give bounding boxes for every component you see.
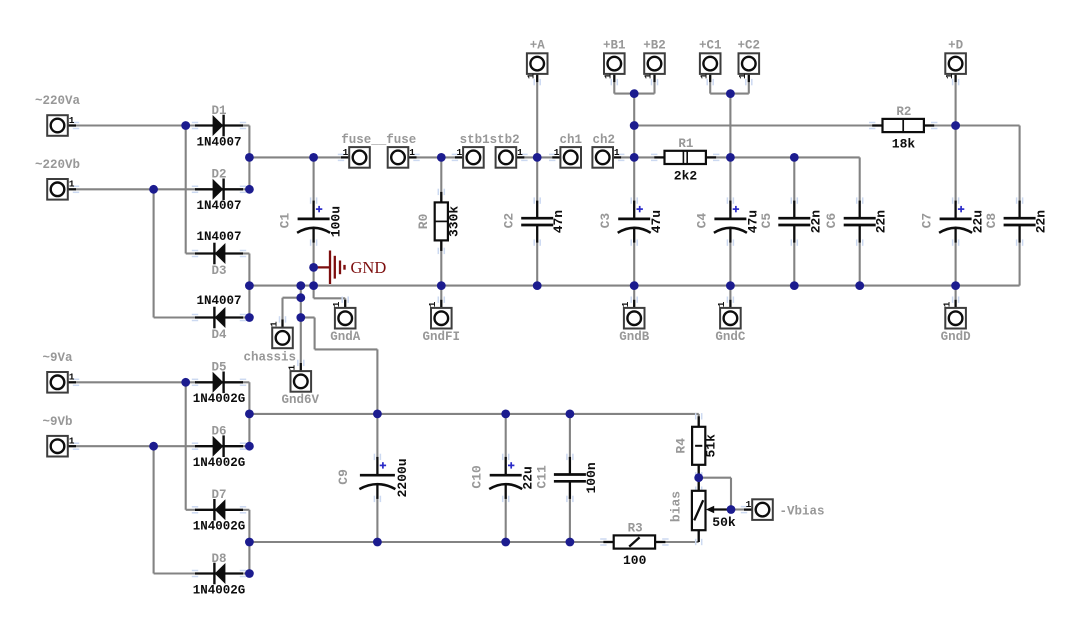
junction node R2 branch <box>630 121 639 130</box>
junction node +B/C3 <box>630 153 639 162</box>
svg-text:+B1: +B1 <box>603 39 626 53</box>
junction node +B join <box>630 89 639 98</box>
capacitor C4 47u <box>694 197 760 245</box>
connector ~220Vb <box>35 158 80 200</box>
junction node R0 bottom <box>437 281 446 290</box>
diode D1 1N4007 <box>192 104 246 149</box>
wire R1 out to C5 C6 <box>716 157 860 202</box>
svg-text:~220Va: ~220Va <box>35 94 81 108</box>
wire C8 branch <box>956 126 1020 286</box>
svg-text:D1: D1 <box>211 104 226 118</box>
svg-text:+D: +D <box>948 39 964 53</box>
svg-text:1: 1 <box>941 301 952 307</box>
wire R0 column / GndFI <box>440 157 442 299</box>
svg-text:1: 1 <box>614 147 620 158</box>
wire R4 to wiper loop <box>699 478 731 510</box>
svg-text:1N4002G: 1N4002G <box>193 392 246 406</box>
svg-text:fuse__fuse: fuse__fuse <box>341 133 416 147</box>
svg-text:+C2: +C2 <box>738 39 761 53</box>
svg-text:1: 1 <box>525 73 536 79</box>
connector ~220Va <box>35 94 81 136</box>
resistor R0 330k <box>416 189 461 254</box>
svg-text:1N4007: 1N4007 <box>196 294 241 308</box>
junction node +C/C4 <box>726 153 735 162</box>
svg-text:GndA: GndA <box>330 330 361 344</box>
junction node C1 bottom <box>309 281 318 290</box>
svg-text:GND: GND <box>351 258 387 277</box>
wire R2 feed <box>634 124 872 126</box>
junction node D8 anode <box>245 569 254 578</box>
wire +B column / C3 <box>633 94 635 300</box>
wire vertical feed D5 node to D7 cathode <box>186 382 196 510</box>
junction node C9 bottom <box>373 538 382 547</box>
wire C5 column <box>793 157 795 285</box>
svg-text:~9Va: ~9Va <box>42 351 73 365</box>
connector ch1 <box>549 133 582 168</box>
connector stb1 <box>452 147 484 168</box>
junction node R0 top <box>437 153 446 162</box>
wire D2 cathode <box>242 188 249 190</box>
wire R4 column <box>698 414 700 478</box>
junction node ~9Va/D5 <box>181 378 190 387</box>
svg-text:D5: D5 <box>211 361 226 375</box>
capacitor C7 22u <box>920 197 986 245</box>
svg-text:-Vbias: -Vbias <box>780 504 825 518</box>
svg-text:1: 1 <box>456 147 462 158</box>
wire +C1 +C2 join <box>710 82 749 94</box>
wire 9V positive rail <box>249 413 698 415</box>
svg-text:GndB: GndB <box>619 330 650 344</box>
wire C9 column <box>376 414 378 542</box>
resistor R2 18k <box>869 105 937 151</box>
svg-text:chassis: chassis <box>244 351 297 365</box>
svg-text:2200u: 2200u <box>395 458 410 497</box>
capacitor C9 2200u <box>336 454 410 502</box>
wire +A column <box>536 82 538 157</box>
junction node +A/C2 <box>533 153 542 162</box>
wire D5 D6 cathodes <box>242 382 249 446</box>
wire stb2 to ch1 <box>524 156 552 158</box>
connector +B1 <box>603 39 626 86</box>
svg-text:D2: D2 <box>211 168 226 182</box>
junction node C11 top <box>566 410 575 419</box>
svg-text:~220Vb: ~220Vb <box>35 158 80 172</box>
svg-text:C8: C8 <box>984 213 999 229</box>
svg-text:C5: C5 <box>759 213 774 229</box>
junction node Gnd6V branch <box>296 313 305 322</box>
svg-text:D3: D3 <box>211 264 226 278</box>
wire 9V negative rail <box>249 541 698 543</box>
capacitor C6 22n <box>824 197 889 245</box>
svg-text:1: 1 <box>716 301 727 307</box>
connector stb2 <box>460 133 528 168</box>
svg-text:Gnd6V: Gnd6V <box>282 393 320 407</box>
wire R2 out to +D node <box>934 124 956 126</box>
junction node D2 cathode <box>245 185 254 194</box>
svg-text:51k: 51k <box>704 434 719 458</box>
diode D5 1N4002G <box>192 361 246 406</box>
svg-text:D6: D6 <box>211 425 226 439</box>
wire C2 column <box>536 157 538 285</box>
wire +B1 +B2 join <box>614 82 654 94</box>
svg-text:D7: D7 <box>211 488 226 502</box>
wire C11 column <box>569 414 571 542</box>
svg-text:C9: C9 <box>336 469 351 485</box>
svg-text:1: 1 <box>603 73 614 79</box>
resistor R1 2k2 <box>651 137 719 183</box>
svg-text:C1: C1 <box>278 213 293 229</box>
svg-text:1: 1 <box>69 372 75 383</box>
junction node D6 cathode <box>245 442 254 451</box>
svg-text:1N4002G: 1N4002G <box>193 520 246 534</box>
wire fuse to stb1 <box>417 156 455 158</box>
svg-text:1: 1 <box>409 147 415 158</box>
junction node C2 bottom <box>533 281 542 290</box>
svg-text:D4: D4 <box>211 328 227 342</box>
wire ~220Vb to D2 anode <box>76 188 196 190</box>
wire ground hub column to Gnd6V <box>300 286 302 363</box>
resistor R3 100 <box>600 522 668 568</box>
svg-text:C4: C4 <box>694 213 709 229</box>
svg-text:1: 1 <box>427 301 438 307</box>
capacitor C5 22n <box>759 197 824 245</box>
wire ground to 9V rectifier rail <box>301 318 378 414</box>
junction node ~220Vb/D2 <box>149 185 158 194</box>
svg-text:100u: 100u <box>329 206 344 237</box>
svg-text:1: 1 <box>554 147 560 158</box>
svg-text:R3: R3 <box>628 522 643 536</box>
wire vertical feed D2 node to D4 cathode <box>154 189 196 317</box>
connector +A <box>525 39 547 86</box>
connector GndFI <box>423 297 461 345</box>
ground GND power symbol <box>314 251 387 285</box>
connector +B2 <box>643 39 666 86</box>
capacitor C3 47u <box>598 197 664 245</box>
svg-text:ch2: ch2 <box>592 133 615 147</box>
wire ch2 to R1 <box>621 156 654 158</box>
svg-text:C6: C6 <box>824 213 839 229</box>
svg-text:GndD: GndD <box>941 330 972 344</box>
svg-text:stb1stb2: stb1stb2 <box>460 133 520 147</box>
connector -Vbias <box>741 499 825 520</box>
connector ch2 <box>592 133 624 168</box>
connector chassis <box>244 316 297 364</box>
connector +C2 <box>737 39 760 86</box>
svg-text:1: 1 <box>268 321 279 327</box>
svg-text:330k: 330k <box>446 206 461 237</box>
svg-text:GndFI: GndFI <box>423 330 461 344</box>
svg-text:1: 1 <box>69 436 75 447</box>
junction node R4/pot <box>694 473 703 482</box>
wire D4 anode to gnd bus <box>243 286 249 318</box>
junction node C3 bottom <box>630 281 639 290</box>
wire chassis branch <box>283 298 301 320</box>
svg-text:1: 1 <box>287 364 298 370</box>
svg-text:R1: R1 <box>678 137 693 151</box>
resistor R4 51k <box>674 413 719 478</box>
svg-text:+B2: +B2 <box>643 39 666 53</box>
connector GndA <box>330 297 361 345</box>
junction node C7 bottom <box>951 281 960 290</box>
connector GndD <box>941 297 972 345</box>
connector fuse (right) <box>341 133 420 168</box>
connector Gnd6V <box>282 360 320 407</box>
svg-text:1N4007: 1N4007 <box>196 199 241 213</box>
wire ~220Va to D1 anode <box>76 124 196 126</box>
svg-text:1: 1 <box>620 301 631 307</box>
svg-text:1N4002G: 1N4002G <box>193 456 246 470</box>
capacitor C2 47n <box>502 197 567 245</box>
junction node ~220Va/D1 <box>181 121 190 130</box>
diode D2 1N4007 <box>192 168 246 213</box>
svg-text:GndC: GndC <box>715 330 746 344</box>
svg-text:22n: 22n <box>1034 210 1049 234</box>
wire D7 D8 anodes <box>243 510 249 574</box>
junction node C4 bottom <box>726 281 735 290</box>
junction node D4 anode <box>245 313 254 322</box>
svg-text:50k: 50k <box>712 515 736 530</box>
svg-text:100n: 100n <box>584 462 599 493</box>
junction node C6 bottom <box>855 281 864 290</box>
junction node C5 top <box>790 153 799 162</box>
capacitor C10 22u <box>470 454 536 502</box>
junction node chassis branch <box>296 293 305 302</box>
junction node gnd bus left <box>245 281 254 290</box>
svg-text:C10: C10 <box>470 465 485 489</box>
junction node C10 bottom <box>501 538 510 547</box>
connector GndC <box>715 297 746 345</box>
wire bias pot column <box>698 478 700 542</box>
wire wiper node to -Vbias <box>731 508 744 510</box>
svg-text:R0: R0 <box>416 213 431 229</box>
diode D3 1N4007 <box>192 230 246 278</box>
wire vertical feed D1 node to D3 cathode <box>186 126 196 254</box>
svg-text:47n: 47n <box>551 210 566 234</box>
junction node C10 top <box>501 410 510 419</box>
svg-text:C2: C2 <box>502 213 517 229</box>
potentiometer bias 50k <box>668 478 736 546</box>
connector GndB <box>619 297 650 345</box>
svg-text:C11: C11 <box>534 465 549 489</box>
svg-text:1: 1 <box>69 179 75 190</box>
svg-text:18k: 18k <box>892 137 916 152</box>
svg-text:1N4007: 1N4007 <box>196 230 241 244</box>
svg-text:1N4007: 1N4007 <box>196 135 241 149</box>
junction node +C join <box>726 89 735 98</box>
svg-text:C7: C7 <box>920 213 935 229</box>
wire C1 column <box>313 157 315 285</box>
junction node rectified bus <box>245 153 254 162</box>
svg-text:1N4002G: 1N4002G <box>193 583 246 597</box>
junction node wiper/-Vbias <box>727 505 736 514</box>
svg-text:47u: 47u <box>649 210 664 233</box>
wire D3 anode to gnd bus <box>243 254 249 286</box>
wire gnd bus <box>249 285 1019 287</box>
wire +C column / C4 <box>729 94 731 300</box>
svg-text:R4: R4 <box>674 438 689 454</box>
svg-text:1: 1 <box>944 73 955 79</box>
svg-text:bias: bias <box>668 491 683 522</box>
diode D8 1N4002G <box>192 552 246 597</box>
wire ~9Vb to D6 anode <box>76 445 196 447</box>
svg-text:1: 1 <box>746 499 752 510</box>
diode D4 1N4007 <box>192 294 246 342</box>
svg-text:~9Vb: ~9Vb <box>42 415 72 429</box>
junction node C9 top <box>373 410 382 419</box>
wire GndA branch <box>314 286 346 300</box>
wire D1 cathode to bus <box>242 126 249 190</box>
svg-text:2k2: 2k2 <box>674 168 698 183</box>
wire vertical feed D6 node to D8 cathode <box>154 446 196 573</box>
connector fuse (left) <box>338 147 370 168</box>
svg-text:ch1: ch1 <box>559 133 582 147</box>
junction node C5 bottom <box>790 281 799 290</box>
svg-text:R2: R2 <box>896 105 911 119</box>
wire C6 bottom <box>859 241 861 286</box>
svg-text:100: 100 <box>623 553 647 568</box>
svg-text:22n: 22n <box>874 210 889 234</box>
capacitor C8 22n <box>984 197 1049 245</box>
junction node GND symbol <box>309 263 318 272</box>
svg-text:1: 1 <box>517 147 523 158</box>
junction node 9V+ rail <box>245 410 254 419</box>
svg-text:1: 1 <box>69 115 75 126</box>
junction node ~9Vb/D6 <box>149 442 158 451</box>
junction node gnd hub <box>296 281 305 290</box>
svg-text:1: 1 <box>643 73 654 79</box>
svg-text:1: 1 <box>343 147 349 158</box>
connector +C1 <box>698 39 721 86</box>
svg-text:+A: +A <box>530 39 546 53</box>
capacitor C11 100n <box>534 454 599 502</box>
junction node 9V- rail <box>245 538 254 547</box>
wire +D column / C7 <box>955 82 957 300</box>
wire C10 column <box>505 414 507 542</box>
junction node C11 bottom <box>566 538 575 547</box>
wire rectified bus to fuse <box>249 156 341 158</box>
diode D7 1N4002G <box>192 488 246 533</box>
svg-text:1: 1 <box>698 73 709 79</box>
svg-text:C3: C3 <box>598 213 613 229</box>
junction node C1 top <box>309 153 318 162</box>
svg-text:D8: D8 <box>211 552 226 566</box>
junction node +D <box>951 121 960 130</box>
diode D6 1N4002G <box>192 425 246 470</box>
svg-text:+C1: +C1 <box>699 39 722 53</box>
svg-text:1: 1 <box>331 301 342 307</box>
svg-text:22n: 22n <box>808 210 823 234</box>
connector +D <box>944 39 966 86</box>
wire ~9Va to D5 anode <box>76 381 196 383</box>
capacitor C1 100u <box>278 197 344 245</box>
connector ~9Vb <box>42 415 79 457</box>
svg-text:1: 1 <box>737 73 748 79</box>
connector ~9Va <box>42 351 79 393</box>
